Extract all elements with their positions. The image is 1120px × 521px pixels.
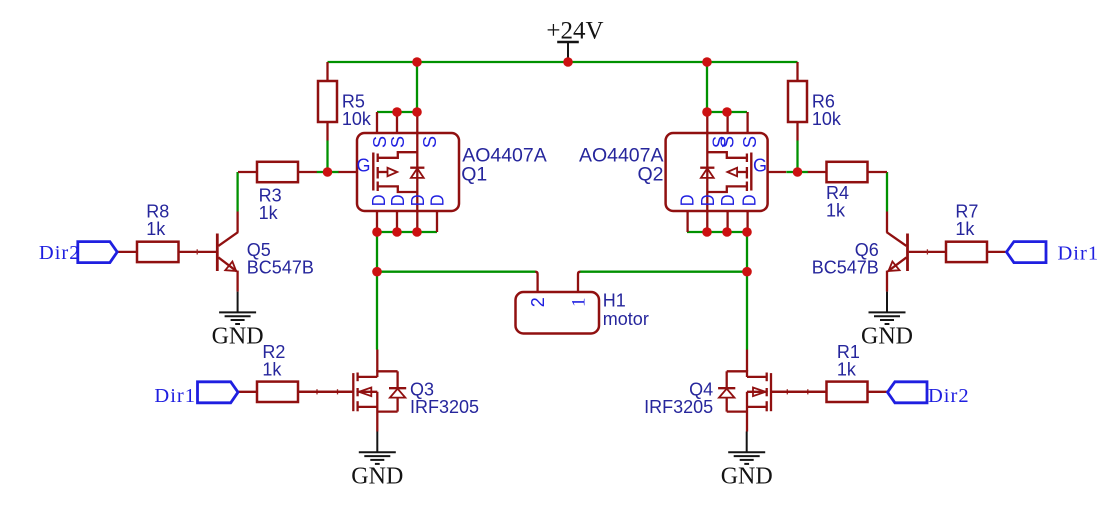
transistor Q5 (BC547B) [217, 212, 314, 292]
net label Dir2 (bottom-right) [888, 382, 970, 407]
wire H1 pin 1 to motor node [580, 271, 747, 273]
junction node B (R6/R4/Q2-G) [793, 167, 803, 177]
pin tick R1/Q4 [786, 389, 788, 394]
junction Q2 S pin 2 [722, 107, 732, 117]
wire Q2 S pins [707, 111, 747, 113]
svg-text:motor: motor [603, 309, 649, 329]
svg-text:GND: GND [212, 324, 264, 350]
net label Dir2 (top-left) [39, 242, 117, 264]
svg-text:+24V: +24V [546, 17, 603, 44]
svg-text:IRF3205: IRF3205 [410, 397, 479, 417]
junction +24V tap [563, 57, 573, 67]
svg-text:1k: 1k [259, 203, 279, 223]
svg-text:BC547B: BC547B [812, 258, 879, 278]
Q1 pin names D (bottom) [368, 195, 447, 207]
svg-text:IRF3205: IRF3205 [644, 397, 713, 417]
wire rail to Q2 S [706, 62, 708, 112]
wire Q2 D to motor node [746, 232, 748, 272]
power +24V [546, 17, 603, 62]
svg-text:S: S [387, 136, 408, 148]
resistor R3 [238, 162, 317, 223]
wire R5 to node A [326, 141, 328, 173]
svg-text:GND: GND [721, 464, 773, 490]
junction Q1 S pin 2 [392, 107, 402, 117]
junction rail/Q2-S riser [702, 57, 712, 67]
svg-text:BC547B: BC547B [247, 258, 314, 278]
ground GND at Q4 [721, 432, 773, 490]
svg-text:H1: H1 [603, 291, 626, 311]
junction Q1 D pin c [412, 227, 422, 237]
svg-text:Dir2: Dir2 [928, 385, 970, 407]
pin tick R2a [316, 389, 318, 394]
svg-text:Dir2: Dir2 [39, 242, 81, 264]
resistor R1 [771, 342, 888, 402]
junction Q2 D pin c [702, 227, 712, 237]
wire Q2 D pins [687, 231, 747, 233]
mosfet Q2 (AO4407A) [579, 112, 786, 232]
wire +24V rail [328, 61, 798, 63]
pin tick R8/Q5 [196, 249, 198, 254]
pin tick R1a [807, 389, 809, 394]
wire Q1 S pins [377, 111, 417, 113]
Q1 pin names S (top) [369, 136, 440, 148]
net label Dir1 (bottom-left) [154, 382, 238, 407]
svg-text:10k: 10k [342, 109, 372, 129]
resistor R5 [318, 62, 372, 141]
svg-text:D: D [677, 195, 698, 207]
ground GND at Q5 [212, 292, 264, 350]
mosfet Q1 (AO4407A) [339, 112, 547, 232]
svg-text:G: G [357, 155, 371, 175]
wire R3 to node A [317, 171, 328, 173]
transistor Q4 (IRF3205) [644, 350, 826, 432]
junction node A (R5/R3/Q1-G) [323, 167, 333, 177]
junction left motor node [372, 267, 382, 277]
pin tick R7/Q6 [926, 249, 928, 254]
junction Q1 D pin b [392, 227, 402, 237]
ground GND at Q6 [861, 292, 913, 350]
wire Q1 D pins [377, 231, 437, 233]
wire Q1 D to motor node [376, 232, 378, 272]
wire R4 to Q6 collector [886, 172, 888, 212]
wire motor node to Q3 drain [376, 272, 378, 350]
svg-text:D: D [387, 195, 408, 207]
svg-text:GND: GND [351, 464, 403, 490]
svg-text:1k: 1k [826, 201, 846, 221]
transistor Q3 (IRF3205) [298, 350, 479, 432]
wire node A to Q1 G [328, 171, 339, 173]
wire R4 to node B [798, 171, 809, 173]
svg-text:GND: GND [861, 324, 913, 350]
junction right motor node [742, 267, 752, 277]
svg-text:Q1: Q1 [461, 164, 487, 186]
svg-text:D: D [717, 194, 738, 206]
wire node B to Q2 G [786, 171, 797, 173]
svg-text:1k: 1k [837, 360, 857, 380]
ground GND at Q3 [351, 432, 403, 490]
junction Q1 S pin 3 [412, 107, 422, 117]
svg-text:Q2: Q2 [637, 164, 663, 186]
svg-text:1k: 1k [262, 360, 282, 380]
svg-text:D: D [368, 195, 389, 207]
resistor R7 [909, 202, 1007, 263]
junction Q2 D pin b [722, 227, 732, 237]
svg-text:G: G [753, 155, 767, 175]
junction Q2 S pin 3 [702, 107, 712, 117]
resistor R2 [238, 342, 353, 402]
junction rail/Q1-S riser [412, 57, 422, 67]
resistor R6 [788, 62, 842, 141]
junction Q2 D pin a [742, 227, 752, 237]
svg-text:Dir1: Dir1 [154, 385, 196, 407]
svg-text:D: D [697, 195, 718, 207]
wire motor node to H1 pin 2 [377, 271, 536, 273]
svg-text:S: S [419, 136, 440, 148]
Q2 pin names D (bottom) [677, 194, 760, 206]
transistor Q6 (BC547B) [812, 212, 908, 292]
svg-text:D: D [427, 195, 448, 207]
svg-text:Dir1: Dir1 [1058, 243, 1100, 265]
wire rail to Q1 S [416, 62, 418, 112]
junction Q1 D pin a [372, 227, 382, 237]
svg-text:D: D [738, 195, 759, 207]
pin tick R2/Q3 [337, 389, 339, 394]
svg-text:1k: 1k [146, 219, 166, 239]
connector H1 (motor) [516, 272, 649, 334]
wire R3 to Q5 collector [236, 172, 238, 212]
svg-text:S: S [717, 136, 738, 148]
resistor R4 [808, 162, 887, 221]
Q2 pin names S (top) [709, 136, 761, 148]
wire motor node to Q4 drain [746, 272, 748, 350]
svg-text:D: D [407, 195, 428, 207]
svg-text:S: S [739, 136, 760, 148]
svg-text:2: 2 [528, 297, 548, 307]
svg-text:10k: 10k [812, 109, 842, 129]
svg-text:1k: 1k [955, 219, 975, 239]
svg-text:1: 1 [569, 298, 590, 308]
resistor R8 [117, 202, 216, 263]
net label Dir1 (top-right) [1007, 242, 1100, 265]
wire R6 to node B [796, 141, 798, 173]
